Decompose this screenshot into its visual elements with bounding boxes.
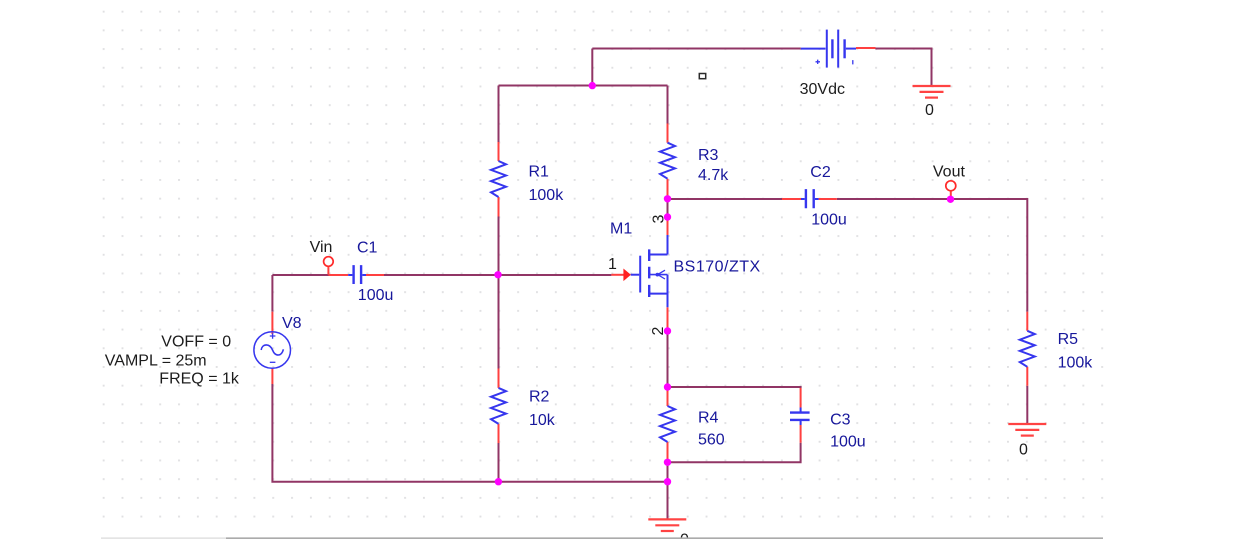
svg-text:10k: 10k	[529, 412, 556, 429]
svg-text:100k: 100k	[529, 187, 565, 204]
svg-text:BS170/ZTX: BS170/ZTX	[674, 259, 761, 276]
svg-text:1: 1	[608, 256, 617, 273]
svg-text:100u: 100u	[811, 211, 847, 228]
svg-text:3: 3	[651, 214, 668, 223]
svg-text:100u: 100u	[358, 287, 394, 304]
svg-text:R5: R5	[1058, 331, 1079, 348]
svg-text:0: 0	[1019, 441, 1028, 458]
svg-text:4.7k: 4.7k	[698, 167, 729, 184]
svg-text:VOFF = 0: VOFF = 0	[161, 334, 231, 351]
svg-text:560: 560	[698, 431, 725, 448]
svg-text:100k: 100k	[1058, 355, 1094, 372]
svg-text:R3: R3	[698, 147, 719, 164]
svg-text:V8: V8	[282, 315, 302, 332]
svg-text:Vin: Vin	[310, 239, 333, 256]
svg-text:FREQ = 1k: FREQ = 1k	[159, 371, 240, 388]
svg-text:C3: C3	[830, 411, 851, 428]
svg-text:R4: R4	[698, 410, 719, 427]
svg-text:30Vdc: 30Vdc	[800, 81, 845, 98]
svg-text:M1: M1	[610, 220, 632, 237]
svg-text:C2: C2	[810, 164, 831, 181]
svg-text:R2: R2	[529, 389, 550, 406]
svg-text:0: 0	[925, 102, 934, 119]
svg-text:R1: R1	[529, 164, 550, 181]
svg-text:VAMPL = 25m: VAMPL = 25m	[105, 353, 207, 370]
svg-text:C1: C1	[357, 240, 378, 257]
svg-text:2: 2	[650, 326, 667, 335]
svg-text:100u: 100u	[830, 434, 866, 451]
svg-text:Vout: Vout	[933, 164, 966, 181]
